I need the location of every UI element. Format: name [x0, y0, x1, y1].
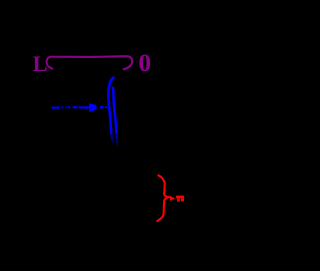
brace pointer arrowhead: [170, 196, 175, 201]
dash before lens: [105, 106, 107, 108]
dash after arrowhead: [100, 106, 103, 109]
label F (tiny red scribble): [176, 196, 184, 202]
arrowhead: [89, 103, 97, 112]
bracket (purple top brace from L to 0): [47, 56, 133, 69]
lens (blue, freehand thin lens): [108, 78, 117, 145]
lens left stroke: [108, 88, 111, 134]
svg-text:L: L: [33, 51, 48, 76]
svg-text:0: 0: [138, 48, 151, 77]
lens right stroke: [113, 88, 116, 133]
lens top stroke: [109, 78, 113, 87]
brace (red right curly brace): [157, 175, 170, 221]
ray arrow (blue dash-dot): [52, 107, 90, 108]
